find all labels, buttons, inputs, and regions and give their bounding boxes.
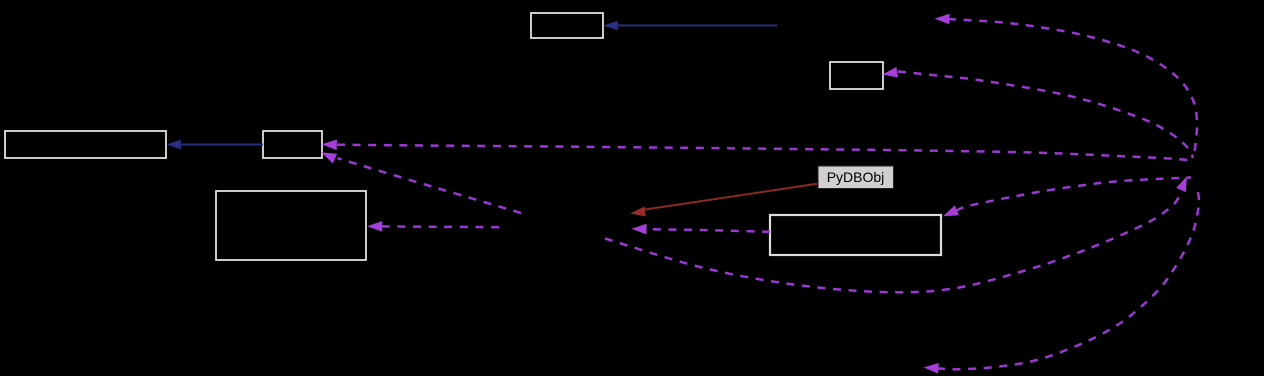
node box F: [770, 215, 941, 255]
edge purple middle node to box E: [367, 221, 499, 232]
svg-text:PyDBObj: PyDBObj: [827, 169, 885, 185]
node box E: [216, 191, 366, 260]
edge blue inheritance to box A: [603, 21, 777, 30]
node box B: [830, 62, 883, 89]
node PyDBObj: [818, 166, 894, 189]
node box C: [5, 131, 166, 158]
edge purple middle node to box D: [321, 152, 521, 213]
edge purple hub to box F: [943, 178, 1191, 217]
edge blue inheritance box D to box C: [166, 140, 263, 149]
edge purple hub to top-right node: [935, 14, 1198, 154]
edge purple hub to box B: [882, 67, 1193, 158]
edge purple middle node to hub: [605, 176, 1187, 292]
node box D: [263, 131, 322, 158]
edge purple hub to box D long: [322, 140, 1194, 161]
edge purple box F to middle node: [632, 224, 771, 235]
edge red private inheritance from PyDBObj: [630, 184, 817, 217]
node box A: [531, 13, 603, 38]
edge purple hub to bottom node: [924, 187, 1200, 374]
